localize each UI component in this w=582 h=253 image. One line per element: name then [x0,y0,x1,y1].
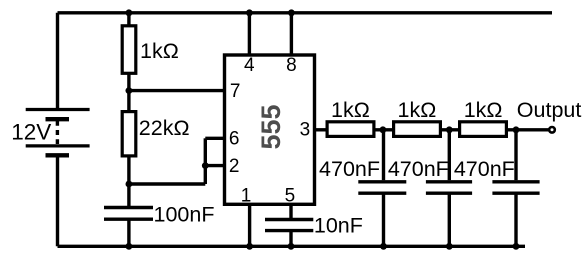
wire bottom rail [58,245,526,248]
node pin 2 link [202,162,209,169]
svg-text:1kΩ: 1kΩ [331,98,370,122]
wire pin 1 to ground rail [248,203,251,246]
svg-text:22kΩ: 22kΩ [139,116,190,140]
wire pin 6 stub [205,137,226,140]
wire pin 5 stub [289,203,292,220]
node pin 4 rail [246,9,253,16]
wire pin 4 stub [248,13,251,56]
terminal output (open circle) [549,127,555,133]
capacitor C1 100nF [104,208,153,220]
svg-text:3: 3 [300,119,311,140]
wire C1 to ground rail [127,219,130,246]
wire R3 to R4 [376,128,395,131]
wire pin 8 stub [290,13,293,56]
svg-text:470nF: 470nF [319,157,380,181]
svg-text:12V: 12V [11,120,51,145]
wire pin 3 stub [313,128,327,131]
wire C5 bottom [514,193,517,246]
wire R5 to output terminal [508,128,549,131]
node C4 ground [446,243,453,250]
wire to pin 7 [129,89,226,92]
wire C4 bottom [448,193,451,246]
resistor R3 1k (horizontal) [327,122,374,137]
node R2/C1 junction [125,181,132,188]
svg-text:1kΩ: 1kΩ [398,98,437,122]
wire C5 top [514,130,517,180]
node R1/R2 junction [125,87,132,94]
node R5/C5 junction [513,126,520,133]
svg-text:7: 7 [230,81,241,102]
wire top rail [58,11,553,14]
wire C4 top [448,130,451,180]
node pin 1 ground [246,243,253,250]
svg-text:6: 6 [229,129,240,150]
node top rail to R1 [125,9,132,16]
svg-text:10nF: 10nF [314,214,363,238]
svg-text:100nF: 100nF [154,202,215,226]
svg-text:4: 4 [244,55,255,76]
resistor R1 1k (vertical) [122,26,136,74]
node pin 8 rail [288,9,295,16]
svg-text:555: 555 [256,104,286,149]
wire battery positive lead [56,13,59,108]
wire R1 top [127,13,130,25]
node C5 ground [513,243,520,250]
svg-text:1kΩ: 1kΩ [464,98,503,122]
wire C2 to ground rail [289,231,292,247]
battery B1 12V [26,110,90,156]
node C3 ground [380,243,387,250]
op-amp U1 555 body [225,55,315,204]
node C2 ground [288,243,295,250]
wire R2 bottom to C1 [127,156,130,206]
node R3/C3 junction [380,126,387,133]
capacitor C5 470nF [492,182,539,193]
wire link vertical pins 6-2 [204,138,207,184]
wire pin 2 stub [205,164,226,167]
wire junction to trigger link [129,182,205,185]
wire R1 bottom to R2 top [127,74,130,111]
capacitor C4 470nF [426,182,472,193]
resistor R5 1k (horizontal) [460,122,507,137]
wire C3 top [382,130,385,180]
svg-text:470nF: 470nF [454,157,515,181]
svg-text:1kΩ: 1kΩ [140,39,179,63]
svg-text:Output: Output [517,98,582,122]
wire C3 bottom [382,193,385,246]
capacitor C2 10nF [265,220,313,231]
node R4/C4 junction [446,126,453,133]
svg-text:470nF: 470nF [388,157,449,181]
wire battery negative lead [56,155,59,246]
svg-text:2: 2 [229,156,240,177]
resistor R2 22k (vertical) [122,112,136,156]
svg-text:8: 8 [286,55,297,76]
wire R4 to R5 [442,128,460,131]
node C1 ground [125,243,132,250]
capacitor C3 470nF [358,182,406,193]
resistor R4 1k (horizontal) [394,122,441,137]
